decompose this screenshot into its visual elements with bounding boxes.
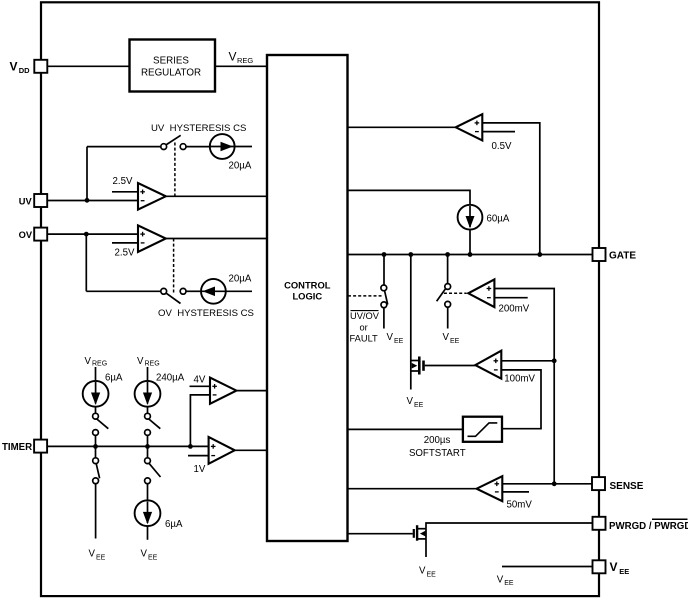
dashed control line UV hysteresis [174, 143, 176, 197]
wire gate bus to 200mV switch [447, 255, 449, 284]
svg-text:SOFTSTART: SOFTSTART [409, 448, 466, 459]
dashed control line from 200mV comparator [444, 292, 467, 294]
switch (UV hysteresis) [161, 144, 167, 150]
wire [147, 407, 149, 414]
node sense riser junction (100mV) [552, 358, 557, 363]
svg-text:EE: EE [504, 580, 514, 587]
current source 6uA (timer charge) [83, 381, 109, 407]
softstart block (200us) [463, 417, 502, 442]
svg-text:1V: 1V [194, 464, 206, 475]
node gate bus E (0.5V comp) [537, 252, 542, 257]
dashed control line UV/OV or FAULT [348, 295, 382, 297]
svg-text:V: V [89, 549, 96, 560]
wire VREG to 6uA source [95, 367, 97, 381]
pin VDD [34, 60, 47, 73]
wire [87, 146, 160, 148]
wire SENSE bus [502, 483, 592, 485]
wire 100mV comp + input to sense riser [501, 360, 554, 362]
node timer bus junction 3 [188, 444, 193, 449]
svg-text:20µA: 20µA [229, 274, 252, 285]
current source 6uA (timer discharge) [135, 500, 161, 526]
svg-text:PWRGD / PWRGD: PWRGD / PWRGD [609, 521, 688, 532]
comparator 50mV (sense) [477, 476, 503, 501]
svg-text:V: V [419, 566, 426, 577]
current source 240uA (timer fast charge) [135, 381, 161, 407]
wire col 1 down to VEE [95, 484, 97, 539]
wire gate bus to MOSFET Q1 rail [410, 255, 412, 390]
wire riser OV to hysteresis switch [85, 234, 87, 291]
svg-text:SERIES: SERIES [153, 56, 189, 67]
transistor Q2 (PWRGD MOSFET) [413, 529, 415, 538]
comparator 0.5V (gate) [456, 114, 483, 140]
wire 0.5V comparator output to control logic [348, 126, 456, 128]
wire [186, 146, 210, 148]
2.5V ref stub (OV comparator) [112, 242, 138, 244]
svg-text:6µA: 6µA [165, 519, 183, 530]
wire [235, 146, 252, 148]
wire 4V comparator output [236, 390, 267, 392]
comparator OV (2.5V) [138, 225, 166, 252]
svg-text:FAULT: FAULT [350, 334, 379, 344]
svg-text:200mV: 200mV [499, 303, 530, 314]
wire timer bus riser to 4V comparator [190, 395, 210, 447]
svg-text:EE: EE [427, 572, 437, 579]
pin OV [34, 228, 47, 241]
svg-text:V: V [443, 332, 450, 343]
wire 60uA to GATE bus [469, 230, 471, 255]
svg-text:0.5V: 0.5V [492, 141, 512, 152]
wire GATE bus [348, 254, 593, 256]
node gate bus D (60uA) [468, 252, 473, 257]
wire 50mV comparator output to control logic [348, 488, 477, 490]
svg-text:LOGIC: LOGIC [292, 291, 322, 302]
svg-text:V: V [497, 575, 504, 586]
comparator 100mV [475, 351, 501, 379]
svg-text:240µA: 240µA [156, 373, 185, 384]
svg-text:UV/OV: UV/OV [350, 311, 380, 321]
node gate bus C [445, 252, 450, 257]
wire switch to VEE [383, 308, 385, 329]
svg-text:UV HYSTERESIS CS: UV HYSTERESIS CS [151, 123, 246, 134]
svg-text:OV: OV [19, 230, 33, 240]
svg-text:EE: EE [96, 555, 106, 562]
wire to timer bus [147, 435, 149, 446]
switch (timer fast charge, col 2) [145, 413, 151, 419]
wire OV pin to comparator [47, 233, 138, 235]
node VREG label (240uA source) [137, 356, 185, 384]
current source 20uA (OV hysteresis) [201, 279, 226, 304]
OV hysteresis row wire [86, 290, 160, 292]
svg-text:REG: REG [92, 361, 107, 368]
pin VEE (right edge) [593, 560, 606, 573]
wire control logic to 60uA source [348, 190, 470, 205]
node VEE label (fault switch) [387, 332, 404, 345]
wire VDD to series regulator [47, 65, 129, 67]
svg-text:2.5V: 2.5V [113, 176, 133, 187]
wire UV comparator output to control logic [166, 195, 267, 197]
svg-text:V: V [137, 356, 144, 367]
svg-text:REGULATOR: REGULATOR [141, 68, 201, 79]
svg-text:4V: 4V [194, 375, 206, 386]
svg-text:V: V [407, 396, 414, 407]
pin GATE [593, 248, 606, 261]
node VEE label (pin stub) [497, 575, 514, 588]
svg-text:TIMER: TIMER [2, 442, 32, 453]
svg-text:50mV: 50mV [507, 499, 533, 510]
svg-text:200µs: 200µs [424, 435, 451, 446]
wire below bus col 2 [147, 446, 149, 457]
label UV/OV or FAULT [351, 310, 379, 312]
svg-text:GATE: GATE [609, 251, 636, 262]
node VEE label col 1 [89, 549, 106, 562]
svg-text:DD: DD [19, 66, 30, 75]
UV hysteresis row [151, 123, 246, 134]
dashed control line OV hysteresis [173, 239, 175, 294]
svg-text:V: V [141, 549, 148, 560]
wire [226, 290, 252, 292]
svg-text:OV HYSTERESIS CS: OV HYSTERESIS CS [158, 308, 254, 319]
node (OV line junction) [84, 232, 89, 237]
current source 60uA (gate pullup) [458, 205, 483, 230]
SERIES REGULATOR block [130, 40, 216, 92]
comparator 4V (timer) [210, 378, 236, 404]
svg-text:or: or [360, 322, 368, 332]
svg-text:EE: EE [414, 402, 424, 409]
pin PWRGD / PWRGD-bar [593, 517, 606, 530]
4V ref stub [190, 385, 211, 387]
node gate bus A [382, 252, 387, 257]
wire 100mV comp output to Q1 gate [425, 365, 476, 367]
wire Q2 drain to PWRGD pin [426, 523, 593, 529]
svg-text:UV: UV [19, 196, 33, 206]
svg-text:V: V [610, 560, 618, 574]
wire [95, 407, 97, 414]
wire below bus col 1 [95, 446, 97, 457]
wire 1V comparator output [235, 449, 267, 451]
transistor Q1 (gate clamp MOSFET) [411, 360, 418, 362]
node VEE label (Q1) [407, 396, 424, 409]
node VEE label col 2 [141, 549, 158, 562]
svg-text:EE: EE [619, 567, 629, 576]
svg-text:REG: REG [145, 361, 160, 368]
svg-text:20µA: 20µA [229, 161, 252, 172]
comparator 200mV [468, 279, 494, 307]
comparator 1V (timer) [209, 437, 235, 464]
comparator UV (2.5V) [138, 183, 166, 210]
svg-text:CONTROL: CONTROL [284, 280, 331, 291]
svg-text:EE: EE [450, 338, 460, 345]
wire TIMER bus [47, 445, 209, 447]
wire Q2 body rail [425, 529, 427, 539]
VEE pin stub wire [502, 566, 593, 568]
node timer bus junction 1 [93, 444, 98, 449]
wire to timer bus [95, 435, 97, 446]
wire riser UV to hysteresis switch [86, 147, 88, 201]
svg-text:EE: EE [148, 555, 158, 562]
svg-text:EE: EE [394, 338, 404, 345]
node timer bus junction 2 [145, 444, 150, 449]
wire control logic to PWRGD MOSFET gate [348, 533, 413, 535]
svg-text:100mV: 100mV [504, 374, 535, 385]
pin TIMER [34, 440, 47, 453]
wire 0.5V comp + input from GATE bus [482, 123, 540, 255]
node VEE label (200mV switch) [443, 332, 460, 345]
wire [147, 484, 149, 501]
wire control logic to softstart [348, 428, 463, 430]
node sense riser to bus [552, 481, 557, 486]
switch (timer discharge, col 2) [145, 458, 151, 464]
svg-text:V: V [229, 50, 237, 64]
switch (OV hysteresis) [161, 288, 167, 294]
switch (gate to sense, 200mV) [445, 284, 451, 290]
wire 200mV comp + input riser to SENSE [494, 289, 554, 484]
svg-text:6µA: 6µA [105, 373, 123, 384]
wire OV comparator output to control logic [166, 238, 267, 240]
switch (timer discharge, col 1) [93, 458, 99, 464]
svg-text:60µA: 60µA [487, 214, 510, 225]
wire VREG to 240uA source [147, 367, 149, 381]
switch (gate pulldown, UV/OV fault) [381, 285, 387, 291]
node gate bus B [408, 252, 413, 257]
wire gate bus to fault switch [383, 255, 385, 286]
svg-text:V: V [10, 60, 18, 74]
svg-text:REG: REG [237, 56, 253, 65]
1V ref stub [188, 455, 209, 457]
svg-text:SENSE: SENSE [610, 481, 644, 492]
wire switch to VEE [447, 307, 449, 328]
wire series regulator to control logic, node VREG [215, 65, 267, 67]
CONTROL LOGIC block [267, 55, 348, 541]
pin UV [34, 194, 47, 207]
node VREG label (6uA source) [85, 356, 123, 384]
0.5V ref stub [482, 131, 515, 133]
svg-text:V: V [85, 356, 92, 367]
switch (timer charge, col 1) [93, 413, 99, 419]
current source 20uA (UV hysteresis) [210, 134, 235, 159]
pin SENSE [592, 477, 605, 490]
node (UV line junction) [85, 198, 90, 203]
50mV ref stub [502, 491, 529, 493]
wire col 2 down to VEE [147, 526, 149, 540]
200mV ref stub [494, 297, 527, 299]
wire 100mV comp - input from softstart [501, 370, 541, 429]
node VEE label (Q2) [419, 566, 436, 579]
wire [186, 290, 201, 292]
wire UV pin to comparator [47, 200, 138, 202]
svg-text:V: V [387, 332, 394, 343]
2.5V ref stub (UV comparator) [112, 191, 138, 193]
svg-text:2.5V: 2.5V [115, 248, 135, 259]
wire Q2 source to VEE [425, 539, 427, 557]
